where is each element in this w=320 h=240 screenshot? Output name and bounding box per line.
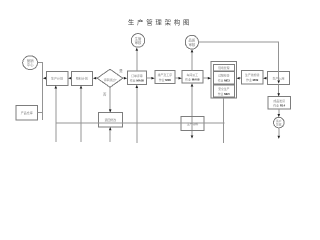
wire C4 down arrow [278, 128, 280, 136]
circle C4 客户签收 [274, 117, 285, 128]
wire diamond down to boxD arrow [109, 87, 111, 109]
wire box7 to box6 arrow left [240, 77, 242, 79]
svg-text:退回修改: 退回修改 [105, 117, 117, 122]
svg-text:审核: 审核 [135, 40, 142, 45]
wire box1 to C1-bus with arrow left [44, 77, 46, 79]
box6 container 现场管理 [211, 61, 236, 98]
box3 订单评审 [127, 71, 146, 85]
svg-text:是: 是 [119, 68, 123, 73]
svg-text:成品发货: 成品发货 [273, 98, 285, 103]
svg-text:作业 MA08: 作业 MA08 [185, 77, 200, 82]
svg-text:中心: 中心 [27, 62, 34, 67]
svg-text:生产管理架构图: 生产管理架构图 [128, 18, 192, 27]
circle C2 生管审核 [131, 34, 144, 48]
svg-text:作业 ME5: 作业 ME5 [218, 92, 231, 96]
svg-text:过程检验: 过程检验 [218, 74, 229, 78]
wire box2 to box1 arrow left [70, 77, 71, 79]
svg-text:作业 M06: 作业 M06 [159, 77, 172, 82]
wire box6 bottom down [223, 98, 225, 143]
box5 车间派工 [182, 71, 203, 84]
box9 成品发货 [268, 97, 290, 109]
box2 物料计划 [71, 71, 92, 85]
svg-text:审核: 审核 [189, 42, 196, 47]
wire box5 up to C3 with arrow [191, 53, 193, 71]
box7 生产线检验 [241, 70, 263, 84]
svg-text:安全生产: 安全生产 [218, 87, 229, 91]
box8 生产入库 [267, 71, 289, 84]
circle C1 营销中心 [23, 56, 38, 70]
svg-text:产品仓库: 产品仓库 [21, 110, 33, 115]
wire box3 to box4 arrow right [147, 77, 153, 79]
svg-text:作业 R14: 作业 R14 [273, 103, 285, 108]
box 产品仓库 [16, 105, 38, 120]
box4 排产及工序 [155, 70, 175, 83]
svg-text:生产计划: 生产计划 [51, 76, 63, 81]
svg-text:作业 MA05: 作业 MA05 [130, 78, 145, 83]
circle C3 品质审核 [185, 35, 198, 49]
svg-text:作业 ME3: 作业 ME3 [218, 78, 231, 82]
svg-text:评审通过?: 评审通过? [104, 78, 117, 82]
wire 产品仓库 stub to bus [38, 112, 43, 114]
svg-text:签收: 签收 [276, 123, 282, 127]
svg-text:排产及工序: 排产及工序 [158, 72, 173, 77]
svg-text:作业 M09: 作业 M09 [246, 77, 259, 82]
box E 生产领料 [181, 117, 204, 131]
svg-text:车间派工: 车间派工 [187, 72, 199, 77]
box D 退回修改 [98, 113, 122, 127]
wire box5 to box6 arrow right [203, 77, 209, 79]
svg-text:物料计划: 物料计划 [76, 76, 88, 81]
diamond 评审通过 [97, 69, 123, 87]
wire below box3 down with arrow up into box3 [136, 88, 138, 143]
wire box8 to box9 arrow down [278, 84, 280, 93]
wire C1 to vertical bus [38, 63, 43, 120]
wire C3 right and down into box8 [199, 42, 279, 80]
wire below box1 with arrow up into box1 [55, 89, 57, 142]
svg-text:生产线检验: 生产线检验 [245, 72, 260, 77]
wire main horizontal line [56, 122, 225, 124]
wire diamond to box3 arrow right [123, 77, 125, 79]
wire box9 to C4 arrow down [278, 109, 280, 114]
svg-text:订单评审: 订单评审 [131, 73, 143, 78]
svg-text:否: 否 [103, 93, 107, 97]
box1 生产计划 [46, 71, 68, 85]
wire box3 up to C2 with arrow [136, 51, 138, 71]
svg-text:现场管理: 现场管理 [218, 66, 229, 70]
wire below box2 with arrow up into box2 [80, 89, 82, 142]
wire diamond to box2 arrow left [96, 77, 97, 79]
wire box8 to box7 arrow left [266, 77, 267, 79]
wire below boxD with arrow up into boxD [109, 130, 111, 142]
wire box4 to box5 arrow right [175, 77, 179, 79]
wire below box5 down through boxE, arrows both ends [191, 87, 193, 135]
